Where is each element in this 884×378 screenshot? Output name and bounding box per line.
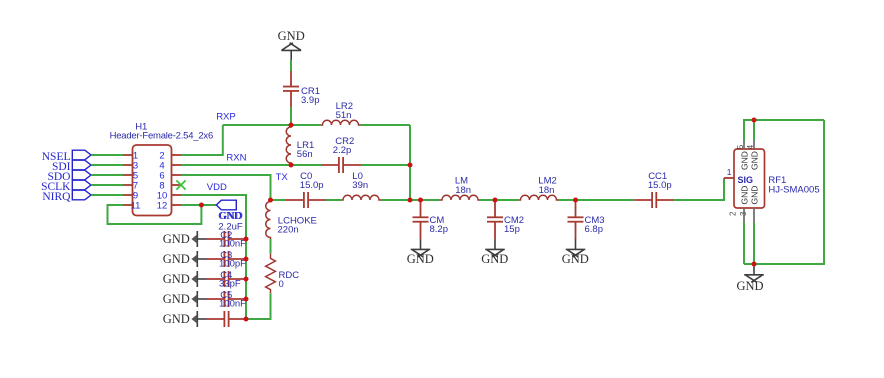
svg-text:15p: 15p [504, 224, 520, 235]
svg-text:RXN: RXN [226, 152, 246, 163]
wire RF1 pin3 down [753, 223, 755, 265]
resistor RDC [266, 254, 276, 294]
wire L0 to rail junction [381, 199, 440, 201]
capacitor C2 [207, 231, 247, 247]
junction RXP/CR1/LR1 [289, 123, 294, 128]
wire LR2 to right rail [361, 124, 411, 126]
capacitor C3 [207, 251, 247, 267]
capacitor C1 [207, 311, 247, 327]
port SCLK flag [72, 180, 91, 190]
capacitor CM3 [568, 202, 584, 239]
capacitor CC1 [634, 192, 674, 208]
svg-text:TX: TX [276, 172, 289, 183]
svg-text:GND: GND [163, 232, 190, 246]
svg-text:18n: 18n [539, 185, 555, 196]
pin 1 stub [123, 154, 133, 156]
svg-text:Header-Female-2.54_2x6: Header-Female-2.54_2x6 [110, 131, 213, 142]
svg-text:GND: GND [163, 252, 190, 266]
junction VDD/C5 [244, 297, 249, 302]
wire right vertical rail [409, 125, 411, 200]
svg-text:RXP: RXP [216, 112, 236, 123]
junction TX/right rail [408, 198, 413, 203]
svg-text:2: 2 [728, 211, 737, 216]
junction RXN/LR1 [289, 163, 294, 168]
svg-text:GND: GND [163, 292, 190, 306]
wire RF1 pin2 down [743, 223, 745, 265]
svg-text:100nF: 100nF [219, 299, 246, 310]
wire NIRQ [91, 194, 123, 196]
pin 5 stub [123, 174, 133, 176]
wire LM2 to CC1 [559, 199, 635, 201]
svg-text:18n: 18n [455, 185, 471, 196]
ground below RF1 [753, 264, 755, 275]
no-connect X on pin 8 [176, 180, 185, 189]
junction VDD/C1 [244, 317, 249, 322]
pin 6 stub [172, 174, 182, 176]
svg-text:0: 0 [279, 279, 284, 290]
inductor LM2 [519, 195, 559, 200]
wire RF1 right loop [744, 120, 824, 264]
wire pin11-pin12 loop [108, 205, 202, 224]
pin 2 stub [172, 154, 182, 156]
svg-text:GND: GND [278, 29, 305, 43]
capacitor C4 [207, 271, 247, 287]
wire TX elbow from pin6 [181, 175, 271, 200]
junction TX/CM2 [493, 198, 498, 203]
capacitor CR2 [321, 157, 361, 173]
svg-text:GND: GND [481, 252, 508, 266]
wire VDD from pin10 [181, 195, 246, 319]
svg-text:51n: 51n [336, 110, 352, 121]
pin 10 stub [172, 194, 182, 196]
svg-text:GND: GND [407, 252, 434, 266]
wire SCLK [91, 184, 123, 186]
junction VDD/C2 [244, 237, 249, 242]
svg-text:15.0p: 15.0p [648, 180, 672, 191]
wire C0 to L0 [326, 199, 341, 201]
inductor LM [440, 195, 480, 200]
svg-text:2.2p: 2.2p [333, 145, 352, 156]
junction pin11 loop [199, 203, 204, 208]
wire TX junction to C0 [271, 199, 287, 201]
junction VDD/C4 [244, 277, 249, 282]
svg-text:NIRQ: NIRQ [42, 191, 71, 203]
capacitor CR1 [283, 71, 299, 107]
wire RDC to VDD rail [246, 293, 271, 319]
ground below CM3 [575, 239, 577, 249]
inductor LR1 [286, 125, 291, 165]
wire RXP elbow from pin2 [181, 125, 223, 155]
junction RXN/right rail [408, 163, 413, 168]
wire RXP line [223, 124, 321, 126]
svg-text:GND: GND [562, 252, 589, 266]
pin 4 stub [172, 164, 182, 166]
svg-text:15.0p: 15.0p [300, 180, 324, 191]
svg-text:GND: GND [739, 186, 749, 205]
capacitor C5 [207, 291, 247, 307]
connector RF1 body [734, 149, 765, 208]
ground flag at y=259 [163, 251, 207, 267]
svg-text:VDD: VDD [207, 182, 227, 193]
wire LM to LM2 [480, 199, 519, 201]
svg-text:HJ-SMA005: HJ-SMA005 [768, 185, 819, 196]
inductor LR2 [321, 120, 361, 125]
RF1 pin 5 stub [743, 141, 745, 150]
svg-text:GND: GND [736, 279, 763, 293]
wire CR1 to RXP junction [290, 107, 292, 125]
RF1 pin 2 stub [743, 208, 745, 223]
wire LCHOKE to RDC [270, 239, 272, 254]
port SDO flag [72, 170, 91, 180]
capacitor CM [413, 202, 429, 239]
wire RXN from pin4 [181, 164, 321, 166]
svg-text:11: 11 [131, 201, 141, 212]
ground flag at y=319 [163, 311, 207, 327]
svg-text:GND: GND [750, 186, 760, 205]
wire SDO [91, 174, 123, 176]
junction RF1 top [752, 118, 757, 123]
ground below CM [420, 239, 422, 249]
svg-text:56n: 56n [297, 149, 313, 160]
svg-text:GND: GND [219, 210, 243, 222]
svg-text:39n: 39n [352, 180, 368, 191]
svg-text:33pF: 33pF [219, 279, 241, 290]
pin 7 stub [123, 184, 133, 186]
svg-text:SIG: SIG [738, 175, 754, 185]
RF1 pin 3 stub [753, 208, 755, 223]
net flag GND at pin12 [216, 200, 236, 210]
svg-text:3.9p: 3.9p [301, 95, 320, 106]
wire NSEL [91, 154, 123, 156]
pin 11 stub [123, 204, 133, 206]
pin 3 stub [123, 164, 133, 166]
junction VDD/C3 [244, 257, 249, 262]
svg-text:12: 12 [157, 201, 168, 212]
connector H1 body [133, 145, 172, 216]
capacitor C0 [286, 192, 326, 208]
ground flag at y=239 [163, 231, 207, 247]
port NIRQ flag [72, 190, 91, 200]
pin 9 stub [123, 194, 133, 196]
inductor L0 [341, 195, 381, 200]
port NSEL flag [72, 150, 91, 160]
port SDI flag [72, 160, 91, 170]
svg-text:8.2p: 8.2p [430, 224, 449, 235]
junction TX/LCHOKE [268, 198, 273, 203]
wire CC1 to RF1 elbow [674, 178, 724, 200]
svg-text:100nF: 100nF [219, 239, 246, 250]
wire SDI [91, 164, 123, 166]
inductor LCHOKE [266, 200, 271, 239]
svg-text:6.8p: 6.8p [585, 224, 604, 235]
svg-text:1: 1 [727, 167, 732, 177]
junction RF1 bottom [752, 262, 757, 267]
ground symbol above CR1 [278, 29, 305, 60]
wire RF1 pin4 up [753, 120, 755, 141]
RF1 pin 4 stub [753, 141, 755, 150]
wire pin12 to GND flag [181, 204, 216, 206]
svg-text:GND: GND [739, 151, 749, 170]
pin 8 stub [172, 184, 182, 186]
RF1 pin 1 stub [724, 177, 734, 179]
svg-text:220n: 220n [278, 225, 299, 236]
svg-text:GND: GND [750, 151, 760, 170]
capacitor CM2 [487, 202, 503, 239]
pin 12 stub [172, 204, 182, 206]
svg-text:GND: GND [163, 272, 190, 286]
junction TX/CM3 [573, 198, 578, 203]
wire GND to CR1 [290, 60, 292, 71]
svg-text:100pF: 100pF [219, 259, 246, 270]
wire RF1 pin5 up [744, 120, 824, 141]
ground flag at y=279 [163, 271, 207, 287]
ground flag at y=299 [163, 291, 207, 307]
wire CR2 to right rail [361, 164, 410, 166]
ground below CM2 [494, 239, 496, 249]
junction TX/CM [418, 198, 423, 203]
svg-text:GND: GND [163, 312, 190, 326]
